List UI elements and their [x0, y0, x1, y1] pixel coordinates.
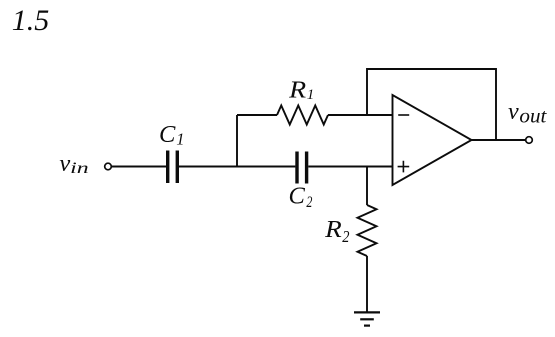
wire R1 to op-amp minus input [328, 114, 393, 116]
op-amp plus sign [398, 161, 410, 173]
op-amp U1 [393, 95, 472, 185]
svg-text:out: out [519, 105, 546, 127]
wire op-amp output [472, 139, 526, 141]
ground [354, 312, 380, 325]
svg-text:v: v [59, 150, 70, 177]
svg-text:in: in [70, 160, 89, 177]
resistor R2 [358, 205, 377, 256]
svg-text:C: C [159, 121, 176, 148]
node A branch vertical wire [236, 115, 238, 167]
node vin terminal [105, 163, 112, 170]
svg-text:1: 1 [176, 130, 184, 149]
wire C2 to op-amp plus input [308, 166, 392, 168]
wire R2 to ground [366, 256, 368, 312]
svg-text:2: 2 [306, 194, 312, 211]
svg-text:2: 2 [342, 227, 350, 246]
wire input to C1 [111, 166, 166, 168]
svg-text:v: v [508, 99, 519, 125]
svg-text:R: R [324, 216, 342, 243]
op-amp minus sign [398, 114, 409, 116]
node vout terminal [526, 137, 533, 144]
capacitor C1 [168, 151, 178, 184]
wire feedback loop [367, 69, 496, 140]
svg-text:1: 1 [307, 87, 315, 103]
resistor R1 [277, 106, 328, 125]
svg-text:C: C [289, 182, 306, 209]
svg-text:R: R [288, 77, 306, 104]
capacitor C2 [297, 152, 307, 184]
wire C1 to C2 [179, 166, 295, 168]
wire node to R1 [237, 114, 277, 116]
svg-text:1.5: 1.5 [12, 4, 50, 37]
wire R2 top [366, 167, 368, 206]
